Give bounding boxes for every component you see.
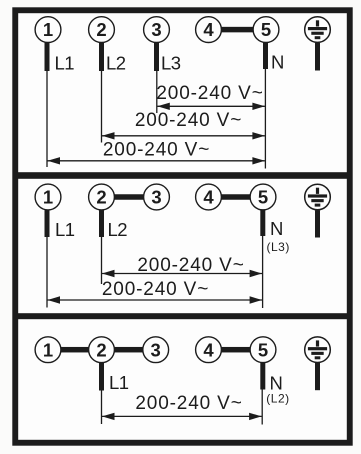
terminal 1 (panel 1): [35, 17, 61, 43]
wire node L1 panel 3: [101, 391, 102, 425]
terminal 2 (panel 2): [89, 184, 115, 210]
terminal 1 (panel 3): [35, 337, 61, 363]
svg-text:4: 4: [203, 339, 214, 360]
svg-text:L1: L1: [55, 219, 75, 240]
svg-text:L1: L1: [55, 52, 75, 73]
ground (protective earth terminal, panel 3): [305, 337, 331, 363]
wire stub below terminal 2 panel 2 (L2): [99, 210, 104, 237]
dimension arrow L1-N 200-240V panel 2: [48, 296, 263, 303]
svg-text:(L3): (L3): [267, 240, 290, 254]
svg-text:L3: L3: [161, 52, 181, 73]
bridge link terminals 4-5 panel 1: [221, 27, 253, 32]
dimension arrow L1-N 200-240V panel 1: [48, 157, 265, 164]
wire node L2 panel 1: [101, 71, 102, 143]
terminal 4 (panel 3): [196, 337, 222, 363]
svg-text:2: 2: [96, 339, 106, 360]
svg-text:1: 1: [43, 339, 53, 360]
ground (protective earth terminal, panel 2): [305, 184, 331, 210]
bridge link terminals 2-3 panel 3: [115, 347, 144, 353]
svg-text:200-240 V~: 200-240 V~: [156, 83, 263, 104]
panel separator line 1: [13, 172, 353, 179]
terminal 1 (panel 2): [35, 184, 61, 210]
svg-text:1: 1: [43, 187, 53, 208]
svg-text:200-240 V~: 200-240 V~: [102, 279, 209, 300]
wire node L1 panel 1: [46, 71, 47, 167]
svg-text:200-240 V~: 200-240 V~: [135, 393, 242, 414]
dimension arrow L2-N 200-240V panel 1: [102, 132, 265, 139]
wire stub below terminal 5 panel 2 (N): [260, 209, 265, 236]
svg-text:(L2): (L2): [266, 391, 289, 405]
wire stub below terminal 5 panel 3 (N): [260, 362, 265, 389]
terminal 2 (panel 1): [89, 17, 115, 43]
wire stub below terminal 2 panel 1 (L2): [99, 43, 104, 72]
wire stub below terminal 2 panel 3 (L1): [99, 363, 104, 391]
terminal 5 (panel 2): [250, 184, 276, 210]
terminal 3 (panel 3): [143, 337, 169, 363]
dimension arrow L3-N 200-240V panel 1: [157, 103, 265, 110]
wire node N panel 1: [265, 69, 266, 169]
svg-text:3: 3: [151, 187, 161, 208]
svg-text:3: 3: [151, 339, 161, 360]
wire stub below ground panel 1: [315, 43, 320, 71]
svg-text:L2: L2: [108, 219, 128, 240]
wire stub below ground panel 2: [315, 210, 320, 237]
terminal 5 (panel 3): [250, 337, 276, 363]
wire stub below terminal 1 panel 2 (L1): [45, 210, 50, 237]
svg-text:2: 2: [96, 187, 106, 208]
svg-text:1: 1: [43, 19, 53, 40]
terminal 3 (panel 1): [144, 17, 170, 43]
svg-text:200-240 V~: 200-240 V~: [135, 110, 242, 131]
svg-text:L2: L2: [106, 52, 126, 73]
ground (protective earth terminal, panel 1): [305, 17, 331, 43]
wire node N panel 3: [262, 390, 263, 425]
svg-text:4: 4: [203, 187, 214, 208]
wire node L3 panel 1: [156, 71, 157, 113]
svg-text:N: N: [270, 218, 283, 239]
dimension arrow L1-N 200-240V panel 3: [102, 413, 262, 420]
terminal 4 (panel 1): [196, 17, 222, 43]
svg-text:5: 5: [258, 187, 268, 208]
bridge link terminals 4-5 panel 2: [221, 194, 250, 200]
bridge link terminals 1-2 panel 3: [61, 347, 89, 353]
wire stub below terminal 5 panel 1 (N): [263, 43, 268, 70]
svg-text:L1: L1: [109, 372, 129, 393]
terminal 2 (panel 3): [89, 337, 115, 363]
wire node N panel 2: [262, 236, 263, 308]
wire node L1 panel 2: [46, 237, 47, 308]
svg-text:N: N: [270, 372, 283, 393]
svg-text:2: 2: [96, 19, 106, 40]
svg-text:5: 5: [261, 19, 271, 40]
wire stub below terminal 1 panel 1 (L1): [45, 43, 50, 72]
svg-text:5: 5: [258, 339, 268, 360]
svg-text:200-240 V~: 200-240 V~: [103, 139, 210, 160]
svg-text:N: N: [271, 52, 284, 73]
terminal 5 (panel 1): [253, 17, 279, 43]
bridge link terminals 2-3 panel 2: [115, 194, 144, 200]
bridge link terminals 4-5 panel 3: [221, 347, 250, 353]
panel separator line 2: [13, 313, 353, 319]
terminal 4 (panel 2): [196, 184, 222, 210]
wire stub below terminal 3 panel 1 (L3): [154, 43, 159, 72]
wire stub below ground panel 3: [315, 363, 320, 391]
svg-text:4: 4: [203, 19, 214, 40]
svg-text:3: 3: [151, 19, 161, 40]
wire node L2 panel 2: [101, 237, 102, 284]
dimension arrow L2-N 200-240V panel 2: [102, 270, 262, 277]
terminal 3 (panel 2): [144, 184, 170, 210]
